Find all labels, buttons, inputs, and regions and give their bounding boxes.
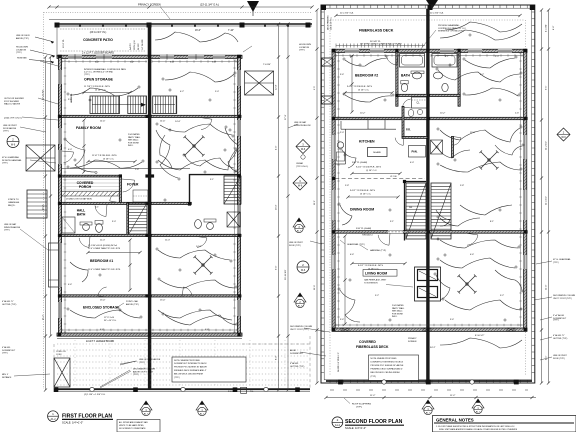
svg-text:11'-6": 11'-6"	[314, 285, 316, 290]
svg-text:PORCH: PORCH	[79, 185, 92, 189]
svg-text:A1-3: A1-3	[144, 413, 149, 416]
dining living dividing wall	[332, 231, 428, 234]
foyer closet	[133, 190, 148, 202]
patio guard rail with posts	[55, 23, 312, 25]
svg-text:3"x4" ALUM.: 3"x4" ALUM.	[553, 314, 565, 317]
svg-text:4'-6": 4'-6"	[350, 254, 354, 256]
svg-text:SIDE. UNITS ARE A MIRROR IMAGE: SIDE. UNITS ARE A MIRROR IMAGE OF EACH O…	[439, 428, 518, 431]
svg-text:GAS FIREPLACE, VENT: GAS FIREPLACE, VENT	[364, 279, 387, 282]
svg-text:ROOF (TYP.): ROOF (TYP.)	[289, 245, 301, 247]
svg-text:P.R.: P.R.	[406, 128, 411, 132]
svg-text:9/16" PL (GLAM): 9/16" PL (GLAM)	[356, 227, 371, 230]
svg-text:6'-0": 6'-0"	[95, 62, 99, 64]
svg-text:6" ALUM. "K": 6" ALUM. "K"	[553, 334, 565, 337]
svg-text:11'-4": 11'-4"	[100, 240, 105, 242]
svg-text:@ 16" O.C.: @ 16" O.C.	[366, 170, 378, 172]
svg-text:TO EXTERIOR: TO EXTERIOR	[364, 282, 378, 284]
right margin dimension column second plan	[541, 10, 543, 383]
svg-text:SECOND FLOOR PLAN: SECOND FLOOR PLAN	[345, 419, 403, 425]
svg-text:22'-1 3/4" O.A.: 22'-1 3/4" O.A.	[340, 12, 354, 15]
svg-text:DOWNSPOUT: DOWNSPOUT	[2, 350, 16, 352]
svg-text:FINISHED DECK SURFACE AND 4": FINISHED DECK SURFACE AND 4"	[371, 368, 404, 371]
bedroom 1 top wall	[62, 234, 148, 236]
svg-text:BELOW DECK CEILING FINISH: BELOW DECK CEILING FINISH	[174, 373, 204, 375]
deck note box second floor	[369, 355, 419, 381]
svg-text:W/ DETN. HANDRAIL: W/ DETN. HANDRAIL	[2, 159, 23, 162]
svg-text:42"H. GUARDRAIL: 42"H. GUARDRAIL	[2, 156, 20, 159]
svg-text:SLOPE 1/4" PER 1'-0": SLOPE 1/4" PER 1'-0"	[338, 352, 340, 372]
svg-text:13'-0": 13'-0"	[160, 300, 166, 302]
svg-text:SCREEN: SCREEN	[408, 341, 417, 343]
svg-text:4'-6": 4'-6"	[68, 284, 72, 286]
svg-text:(TYP.): (TYP.)	[3, 131, 9, 133]
svg-text:BEDROOM #1: BEDROOM #1	[90, 259, 113, 263]
front door arc	[123, 180, 135, 192]
svg-text:(2) 1 3/4" x 1 3/4" LVL: (2) 1 3/4" x 1 3/4" LVL	[84, 394, 106, 396]
mirror storage wall	[151, 295, 241, 297]
svg-text:CONCRETE PATIO: CONCRETE PATIO	[83, 38, 113, 42]
svg-text:LINE OF BAY: LINE OF BAY	[4, 223, 17, 226]
outdoor shower enclosure left side	[26, 145, 55, 171]
svg-text:LINE OF DECK ABOVE: LINE OF DECK ABOVE	[139, 358, 161, 361]
svg-text:3'-6": 3'-6"	[450, 319, 454, 321]
diamond left of second plan	[293, 176, 307, 190]
hall bath door arc	[95, 206, 106, 217]
first floor building top exterior wall	[57, 55, 242, 58]
svg-text:A1-2: A1-2	[335, 424, 341, 427]
fireplace on party wall	[415, 267, 441, 301]
svg-text:(TYP.): (TYP.)	[2, 353, 8, 355]
svg-text:@ 16" O.C.: @ 16" O.C.	[103, 158, 115, 160]
svg-text:ALUM.: ALUM.	[290, 349, 297, 352]
svg-text:@ 16" O.C.: @ 16" O.C.	[360, 193, 372, 195]
bedroom 2 squiggle	[345, 58, 388, 66]
svg-text:(TYP.): (TYP.)	[371, 376, 377, 378]
mirror unit electrical web upper	[160, 124, 232, 135]
bath bottom wall	[396, 94, 427, 96]
first floor plan title circle	[48, 411, 59, 422]
svg-text:PROVIDE PVC SLEEVE 36" ABOVE: PROVIDE PVC SLEEVE 36" ABOVE	[174, 366, 208, 369]
svg-text:16'-0": 16'-0"	[195, 30, 201, 32]
svg-text:FIBERGLASS DECK: FIBERGLASS DECK	[356, 345, 389, 349]
svg-text:7'-10": 7'-10"	[228, 30, 234, 32]
mirror bedroom fan	[194, 256, 213, 275]
svg-text:FOYER: FOYER	[127, 183, 139, 187]
svg-text:34'-2": 34'-2"	[430, 347, 436, 349]
open storage / family room dividing wall	[62, 115, 148, 117]
mirror deck squiggle	[440, 30, 520, 40]
svg-text:ABOVE (TYP.): ABOVE (TYP.)	[126, 303, 139, 306]
second deck squiggle right	[440, 338, 522, 348]
svg-text:W/ JST: W/ JST	[138, 43, 140, 50]
svg-text:7'-6 3/4": 7'-6 3/4"	[263, 64, 271, 66]
privacy screen line above patio	[49, 19, 312, 21]
svg-text:POINT LOAD: POINT LOAD	[126, 300, 139, 303]
extra squiggles second floor rooms	[342, 150, 356, 168]
stair well second floor walls	[405, 182, 427, 241]
bay window bump-out bedroom 2	[322, 58, 333, 104]
svg-text:11'-8" TJI 230 FLR. JSTS: 11'-8" TJI 230 FLR. JSTS	[92, 155, 117, 157]
hall bath top wall	[62, 202, 148, 204]
kitchen top wall	[332, 117, 428, 119]
second deck dotted inner lines	[330, 19, 525, 21]
svg-text:T.S.: T.S.	[250, 391, 254, 393]
svg-text:9'-6": 9'-6"	[276, 265, 278, 270]
svg-text:A1-5: A1-5	[298, 305, 303, 308]
svg-text:12" P. 2x10: 12" P. 2x10	[104, 317, 115, 319]
mirror unit landing walls	[151, 202, 191, 204]
svg-text:A1-4: A1-4	[476, 411, 481, 414]
svg-text:JSTS @16: JSTS @16	[134, 39, 136, 50]
svg-text:BELOW DECK CEILING FINISH: BELOW DECK CEILING FINISH	[371, 372, 401, 374]
svg-text:DOWNSPOUT INTERSECTS DECK: DOWNSPOUT INTERSECTS DECK	[371, 361, 404, 363]
svg-text:11'-2": 11'-2"	[450, 395, 456, 397]
svg-text:DECK FRAMING: DECK FRAMING	[327, 15, 330, 30]
foyer walls	[119, 175, 121, 203]
mirror unit second floor bath fixtures	[442, 83, 448, 91]
svg-text:(23'-11 3/4" I.N.): (23'-11 3/4" I.N.)	[90, 32, 107, 34]
svg-text:(TYP.): (TYP.)	[139, 362, 145, 364]
svg-text:LP: 136: LP: 136	[390, 176, 397, 178]
svg-text:(2) 1 3/4"x14 LVL (FLUSH) W/ 2: (2) 1 3/4"x14 LVL (FLUSH) W/ 2x4	[88, 245, 117, 247]
kitchen left counter and sink	[345, 129, 347, 164]
svg-text:9-1/2" TJI 230 FLR. JSTS: 9-1/2" TJI 230 FLR. JSTS	[350, 190, 375, 192]
svg-text:11'-4" LOWER THAN TYP. FLR. JS: 11'-4" LOWER THAN TYP. FLR. JSTS.	[88, 268, 121, 271]
svg-text:GUTTER (TYP.): GUTTER (TYP.)	[290, 366, 305, 368]
covered porch top wall	[62, 175, 120, 177]
bottom dashed line second deck	[330, 389, 528, 391]
svg-text:PRIVACY SCREEN: PRIVACY SCREEN	[138, 3, 161, 7]
svg-text:ROOF SCUPPERS: ROOF SCUPPERS	[352, 404, 372, 406]
family room south beam line	[61, 168, 148, 170]
svg-text:DINING ROOM: DINING ROOM	[350, 208, 374, 212]
dotted line of deck above outline	[43, 12, 45, 389]
section marker A1-3	[140, 401, 152, 416]
kitchen island	[368, 148, 388, 157]
svg-text:FIBERGLASS DECK: FIBERGLASS DECK	[359, 29, 394, 33]
porch deck board lines	[63, 179, 120, 181]
svg-text:LIVING ROOM: LIVING ROOM	[365, 272, 387, 276]
stair flight left unit B	[128, 96, 147, 114]
svg-text:PROVIDE SHEARWALL: PROVIDE SHEARWALL	[438, 24, 461, 27]
svg-text:14'-6": 14'-6"	[100, 121, 106, 123]
svg-text:FOR MORE: FOR MORE	[392, 313, 403, 315]
svg-text:W-6: W-6	[11, 143, 16, 146]
svg-text:2x8 P.T.: 2x8 P.T.	[130, 43, 132, 50]
svg-text:STEPS TO: STEPS TO	[8, 199, 19, 201]
svg-text:4'-2": 4'-2"	[180, 91, 184, 93]
svg-text:9-1/2" TJI 230 FLR. JSTS: 9-1/2" TJI 230 FLR. JSTS	[347, 86, 372, 88]
svg-text:4" ALUM.: 4" ALUM.	[290, 362, 299, 365]
mirror second floor extra web	[438, 70, 520, 82]
svg-text:8'-0": 8'-0"	[276, 355, 278, 360]
svg-text:4'-2": 4'-2"	[480, 74, 484, 76]
svg-text:COVERED: COVERED	[359, 340, 376, 344]
hall bath sink	[83, 224, 90, 231]
extra door arcs first floor	[64, 152, 74, 163]
deck above dashed outline	[53, 344, 55, 389]
svg-text:PARTY WALL: PARTY WALL	[392, 307, 405, 310]
right dimension column of first plan	[278, 24, 280, 390]
svg-text:LINE OF BAY: LINE OF BAY	[294, 121, 307, 124]
second floor outer deck frame	[321, 5, 535, 383]
left margin window circle marker	[7, 136, 19, 148]
svg-text:(TYP.): (TYP.)	[174, 377, 180, 379]
svg-text:GENERAL NOTES: GENERAL NOTES	[436, 417, 474, 422]
svg-text:(TYP.): (TYP.)	[84, 74, 90, 76]
ac pad xbox bottom left	[54, 358, 70, 387]
svg-text:(TYP.): (TYP.)	[16, 52, 22, 54]
closet door arc	[403, 99, 411, 107]
svg-text:@ 16" O.C.: @ 16" O.C.	[358, 89, 370, 91]
svg-text:12'-0": 12'-0"	[470, 132, 476, 134]
svg-text:W-6: W-6	[298, 184, 303, 187]
mirror kitchen walls	[430, 117, 528, 119]
svg-text:4'-0": 4'-0"	[410, 162, 414, 164]
stair stringer diagonals	[129, 203, 148, 235]
svg-text:W-6: W-6	[561, 136, 566, 139]
svg-text:5'-2": 5'-2"	[130, 62, 134, 64]
svg-text:PROVIDE PVC SLEEVE 36" ABOVE: PROVIDE PVC SLEEVE 36" ABOVE	[371, 364, 405, 367]
svg-text:4" ALUM.: 4" ALUM.	[2, 346, 11, 349]
section marker A1-4	[196, 401, 208, 416]
svg-text:16'-0": 16'-0"	[43, 204, 45, 210]
svg-text:9'-5": 9'-5"	[546, 85, 548, 90]
svg-text:5'-8 1/2": 5'-8 1/2"	[228, 391, 236, 393]
second floor plan title circle	[332, 417, 343, 428]
mirror bedroom2 squiggles	[465, 58, 515, 68]
mirror living fan	[458, 275, 477, 294]
svg-text:2'-6": 2'-6"	[515, 113, 519, 115]
second floor right exterior wall	[524, 49, 527, 330]
svg-text:3'-6": 3'-6"	[340, 319, 344, 321]
svg-text:ROOF ABOVE: ROOF ABOVE	[3, 127, 17, 130]
svg-text:4'-6": 4'-6"	[100, 329, 104, 331]
svg-text:A1-2: A1-2	[50, 418, 56, 421]
svg-text:4'-1": 4'-1"	[546, 355, 548, 360]
svg-text:INFO.: INFO.	[128, 145, 134, 147]
svg-text:STOP SHOWER: STOP SHOWER	[4, 101, 19, 103]
svg-text:2x8 @ 16" O.C.: 2x8 @ 16" O.C.	[331, 16, 333, 30]
svg-text:ON P.T. POST (TYP.): ON P.T. POST (TYP.)	[553, 298, 572, 300]
svg-text:ENCLOSED STORAGE: ENCLOSED STORAGE	[83, 306, 120, 310]
bath sink	[412, 72, 421, 79]
svg-text:GUTTER (TYP.): GUTTER (TYP.)	[2, 304, 17, 306]
svg-text:GUTTER (TYP.): GUTTER (TYP.)	[553, 338, 568, 340]
svg-text:CEDAR: CEDAR	[296, 162, 304, 165]
svg-text:TW15067-4: TW15067-4	[362, 234, 373, 236]
svg-text:HANDRAIL (TYP.): HANDRAIL (TYP.)	[370, 249, 386, 252]
svg-text:3'-6": 3'-6"	[68, 99, 72, 101]
svg-text:ROOF (TYP.): ROOF (TYP.)	[553, 358, 565, 360]
mirror stairwell walls	[190, 175, 242, 205]
svg-text:(TYP.): (TYP.)	[133, 374, 139, 376]
svg-text:4'-6": 4'-6"	[276, 145, 278, 150]
svg-text:CONC.: CONC.	[56, 354, 63, 356]
mirror bedroom wall	[151, 234, 241, 236]
stair treads second floor	[406, 183, 426, 239]
living squiggles	[340, 290, 360, 322]
svg-text:LOCATION: LOCATION	[16, 48, 27, 51]
mirror unit extra web	[156, 130, 178, 178]
svg-text:5'-0": 5'-0"	[215, 91, 219, 93]
stair flight left unit A	[90, 96, 120, 114]
mirror kitchen fan	[480, 151, 499, 170]
svg-text:9'-2": 9'-2"	[375, 295, 379, 297]
svg-text:12'-8": 12'-8"	[276, 84, 278, 90]
svg-text:9'-5": 9'-5"	[314, 86, 316, 90]
deck bottom rail first floor	[54, 388, 310, 390]
extra squiggles family room and storage	[70, 88, 138, 96]
svg-text:LINE OF PENT: LINE OF PENT	[553, 355, 567, 357]
svg-text:FAMILY ROOM: FAMILY ROOM	[76, 126, 101, 130]
bath tub	[400, 54, 425, 68]
markers between plans	[293, 218, 305, 233]
recessed lights second floor	[359, 64, 361, 66]
svg-text:6'-0": 6'-0"	[170, 62, 174, 64]
svg-text:11'-2": 11'-2"	[43, 314, 45, 320]
recessed light circles	[89, 99, 91, 101]
kitchen counters	[341, 128, 396, 130]
extra leader lines margins	[40, 61, 58, 66]
svg-text:SEE 3/A1-1: SEE 3/A1-1	[128, 139, 139, 142]
svg-text:HOLDDOWN: HOLDDOWN	[299, 44, 311, 46]
svg-text:29'-11 3/4": 29'-11 3/4"	[43, 90, 45, 100]
svg-text:6'-1": 6'-1"	[445, 56, 449, 58]
mirror patio curvy vent lines	[155, 32, 238, 42]
svg-text:DECORATIVE COLUMN: DECORATIVE COLUMN	[290, 325, 313, 328]
general notes box	[433, 416, 576, 432]
svg-text:WINDOW BELOW: WINDOW BELOW	[294, 125, 311, 127]
mirror shaft xbox second floor	[431, 140, 443, 154]
svg-text:4'-1": 4'-1"	[385, 56, 389, 58]
mirror second floor curvy hvac	[445, 22, 522, 32]
mirror stairs second floor	[431, 183, 451, 239]
svg-text:(22)/4 (TYP. U.N.O.): (22)/4 (TYP. U.N.O.)	[4, 118, 22, 120]
svg-text:(TYP. U.N.O.): (TYP. U.N.O.)	[296, 166, 309, 168]
hall bath shower	[62, 217, 75, 233]
second plan left dimension column	[316, 10, 318, 383]
svg-text:SCALE: 1/4"=1'-0": SCALE: 1/4"=1'-0"	[62, 421, 83, 425]
hall bath toilet	[96, 224, 103, 233]
svg-text:2'-8": 2'-8"	[135, 169, 139, 171]
svg-text:ABOVE ON P.T. POST: ABOVE ON P.T. POST	[133, 370, 154, 373]
svg-text:SCALE: 1/4"=1'-0": SCALE: 1/4"=1'-0"	[345, 426, 366, 430]
svg-text:ALL DRYER AND EXHAUST FAN: ALL DRYER AND EXHAUST FAN	[119, 421, 148, 424]
svg-text:NOTE: WHERE PROPOSED: NOTE: WHERE PROPOSED	[174, 360, 201, 362]
svg-text:OUTDOOR SHOWER: OUTDOOR SHOWER	[4, 98, 24, 100]
svg-text:MIN. 3': MIN. 3'	[2, 374, 9, 376]
svg-text:W-6: W-6	[301, 148, 306, 151]
svg-text:42" H. GUARDRAIL: 42" H. GUARDRAIL	[553, 258, 572, 261]
svg-text:BATH: BATH	[77, 213, 86, 217]
north arrow marker second floor plan	[426, 0, 438, 9]
corner posts first floor	[58, 55, 61, 58]
svg-text:SETBACK: SETBACK	[2, 376, 12, 379]
svg-text:14'-6": 14'-6"	[175, 121, 181, 123]
deck joist tick row	[335, 44, 337, 48]
svg-text:5'-1": 5'-1"	[95, 207, 99, 209]
svg-text:4'-6": 4'-6"	[205, 329, 209, 331]
first floor interior dimension string left rooms	[83, 120, 85, 172]
svg-text:11 7/8" TJI 230 FLR. JSTS: 11 7/8" TJI 230 FLR. JSTS	[84, 86, 110, 88]
svg-text:5/8" TYPE X GWB @ COMMON WALL: 5/8" TYPE X GWB @ COMMON WALL TYP. ABV	[360, 43, 402, 46]
svg-text:FIRST FLOOR PLAN: FIRST FLOOR PLAN	[62, 414, 112, 420]
svg-text:5'-8": 5'-8"	[212, 62, 216, 64]
marker triangle A1-4 second	[472, 399, 484, 414]
svg-text:LINE OF DECK: LINE OF DECK	[16, 35, 31, 37]
bath toilet	[401, 83, 407, 91]
svg-text:2x12 P.T. LEDGER BOARD: 2x12 P.T. LEDGER BOARD	[86, 340, 115, 343]
party wall first floor (2-hr rated)	[148, 24, 151, 390]
second floor left exterior wall	[332, 49, 335, 330]
svg-text:10'-2": 10'-2"	[440, 113, 446, 115]
svg-text:11'-2": 11'-2"	[370, 395, 376, 397]
svg-text:DOWNSPOUT INTERSECTS DECK: DOWNSPOUT INTERSECTS DECK	[174, 363, 207, 365]
pantry	[409, 146, 426, 158]
svg-text:9'-2": 9'-2"	[500, 295, 504, 297]
svg-text:16'-0": 16'-0"	[276, 204, 278, 210]
marker triangle A1-3 second	[422, 400, 434, 415]
corner posts second floor	[332, 49, 335, 52]
svg-text:8'-1": 8'-1"	[490, 221, 494, 223]
first floor bottom exterior wall	[57, 333, 242, 336]
svg-text:HOLDDOWN: HOLDDOWN	[16, 47, 28, 49]
svg-text:3'-6": 3'-6"	[340, 74, 344, 76]
svg-text:PRIVACY: PRIVACY	[408, 337, 417, 340]
svg-text:3'-1": 3'-1"	[210, 179, 214, 181]
mirror unit dividing wall upper	[151, 115, 241, 117]
svg-text:1/4" SLOPE: 1/4" SLOPE	[142, 39, 144, 50]
stair flight mirror unit	[153, 96, 177, 114]
interior dim tick rows second floor	[336, 55, 425, 57]
svg-text:ON P.T. POST (TYP.): ON P.T. POST (TYP.)	[290, 329, 309, 331]
svg-text:WALLS 2' ABOVE: WALLS 2' ABOVE	[4, 103, 21, 106]
svg-text:DOUBLE JOIST @ BAY WDW.: DOUBLE JOIST @ BAY WDW.	[66, 198, 93, 201]
svg-text:FINISHED DECK SURFACE AND 4": FINISHED DECK SURFACE AND 4"	[174, 369, 207, 372]
svg-text:36" x 14" P.G.: 36" x 14" P.G.	[104, 320, 117, 322]
steps to grade	[27, 190, 47, 218]
up arrow open storage stairs	[92, 104, 145, 106]
party wall second floor	[426, 9, 429, 380]
svg-text:GRADE AS: GRADE AS	[8, 201, 20, 204]
bedroom2 entry door arc	[386, 55, 397, 65]
svg-text:ISLAND: ISLAND	[373, 151, 381, 154]
svg-text:A1-3: A1-3	[426, 412, 431, 415]
svg-text:SEE 3/A1-1: SEE 3/A1-1	[392, 310, 403, 313]
svg-text:(TYP.): (TYP.)	[553, 262, 559, 264]
svg-text:6" ALUM. "K": 6" ALUM. "K"	[2, 300, 14, 303]
svg-text:WINDOW ABOVE: WINDOW ABOVE	[4, 226, 21, 229]
svg-text:1. FLOOR PLANS SHOW NOTES & ST: 1. FLOOR PLANS SHOW NOTES & STRUCTURE IN…	[436, 425, 515, 428]
svg-text:A1-4: A1-4	[200, 413, 205, 416]
top dimension line first floor	[49, 6, 312, 8]
svg-text:11'-4": 11'-4"	[165, 240, 170, 242]
svg-text:4'-1 3/4": 4'-1 3/4"	[546, 24, 548, 32]
svg-text:REQ'D.: REQ'D.	[8, 205, 16, 207]
bay window bump-out bedroom 1	[49, 243, 59, 287]
right side outdoor shower xbox	[245, 71, 274, 95]
svg-text:NOTE: WHERE PROPOSED: NOTE: WHERE PROPOSED	[371, 358, 398, 360]
extra door arcs second floor	[378, 235, 389, 245]
svg-text:DN: DN	[409, 207, 413, 209]
interior dim tick rows first floor	[62, 61, 147, 63]
svg-text:PARTY WALL: PARTY WALL	[128, 136, 141, 139]
svg-text:(TYP.): (TYP.)	[2, 163, 8, 165]
deck dotted verticals	[74, 340, 76, 387]
north arrow marker top of first floor plan	[247, 1, 259, 12]
svg-text:4'-0": 4'-0"	[68, 149, 72, 151]
